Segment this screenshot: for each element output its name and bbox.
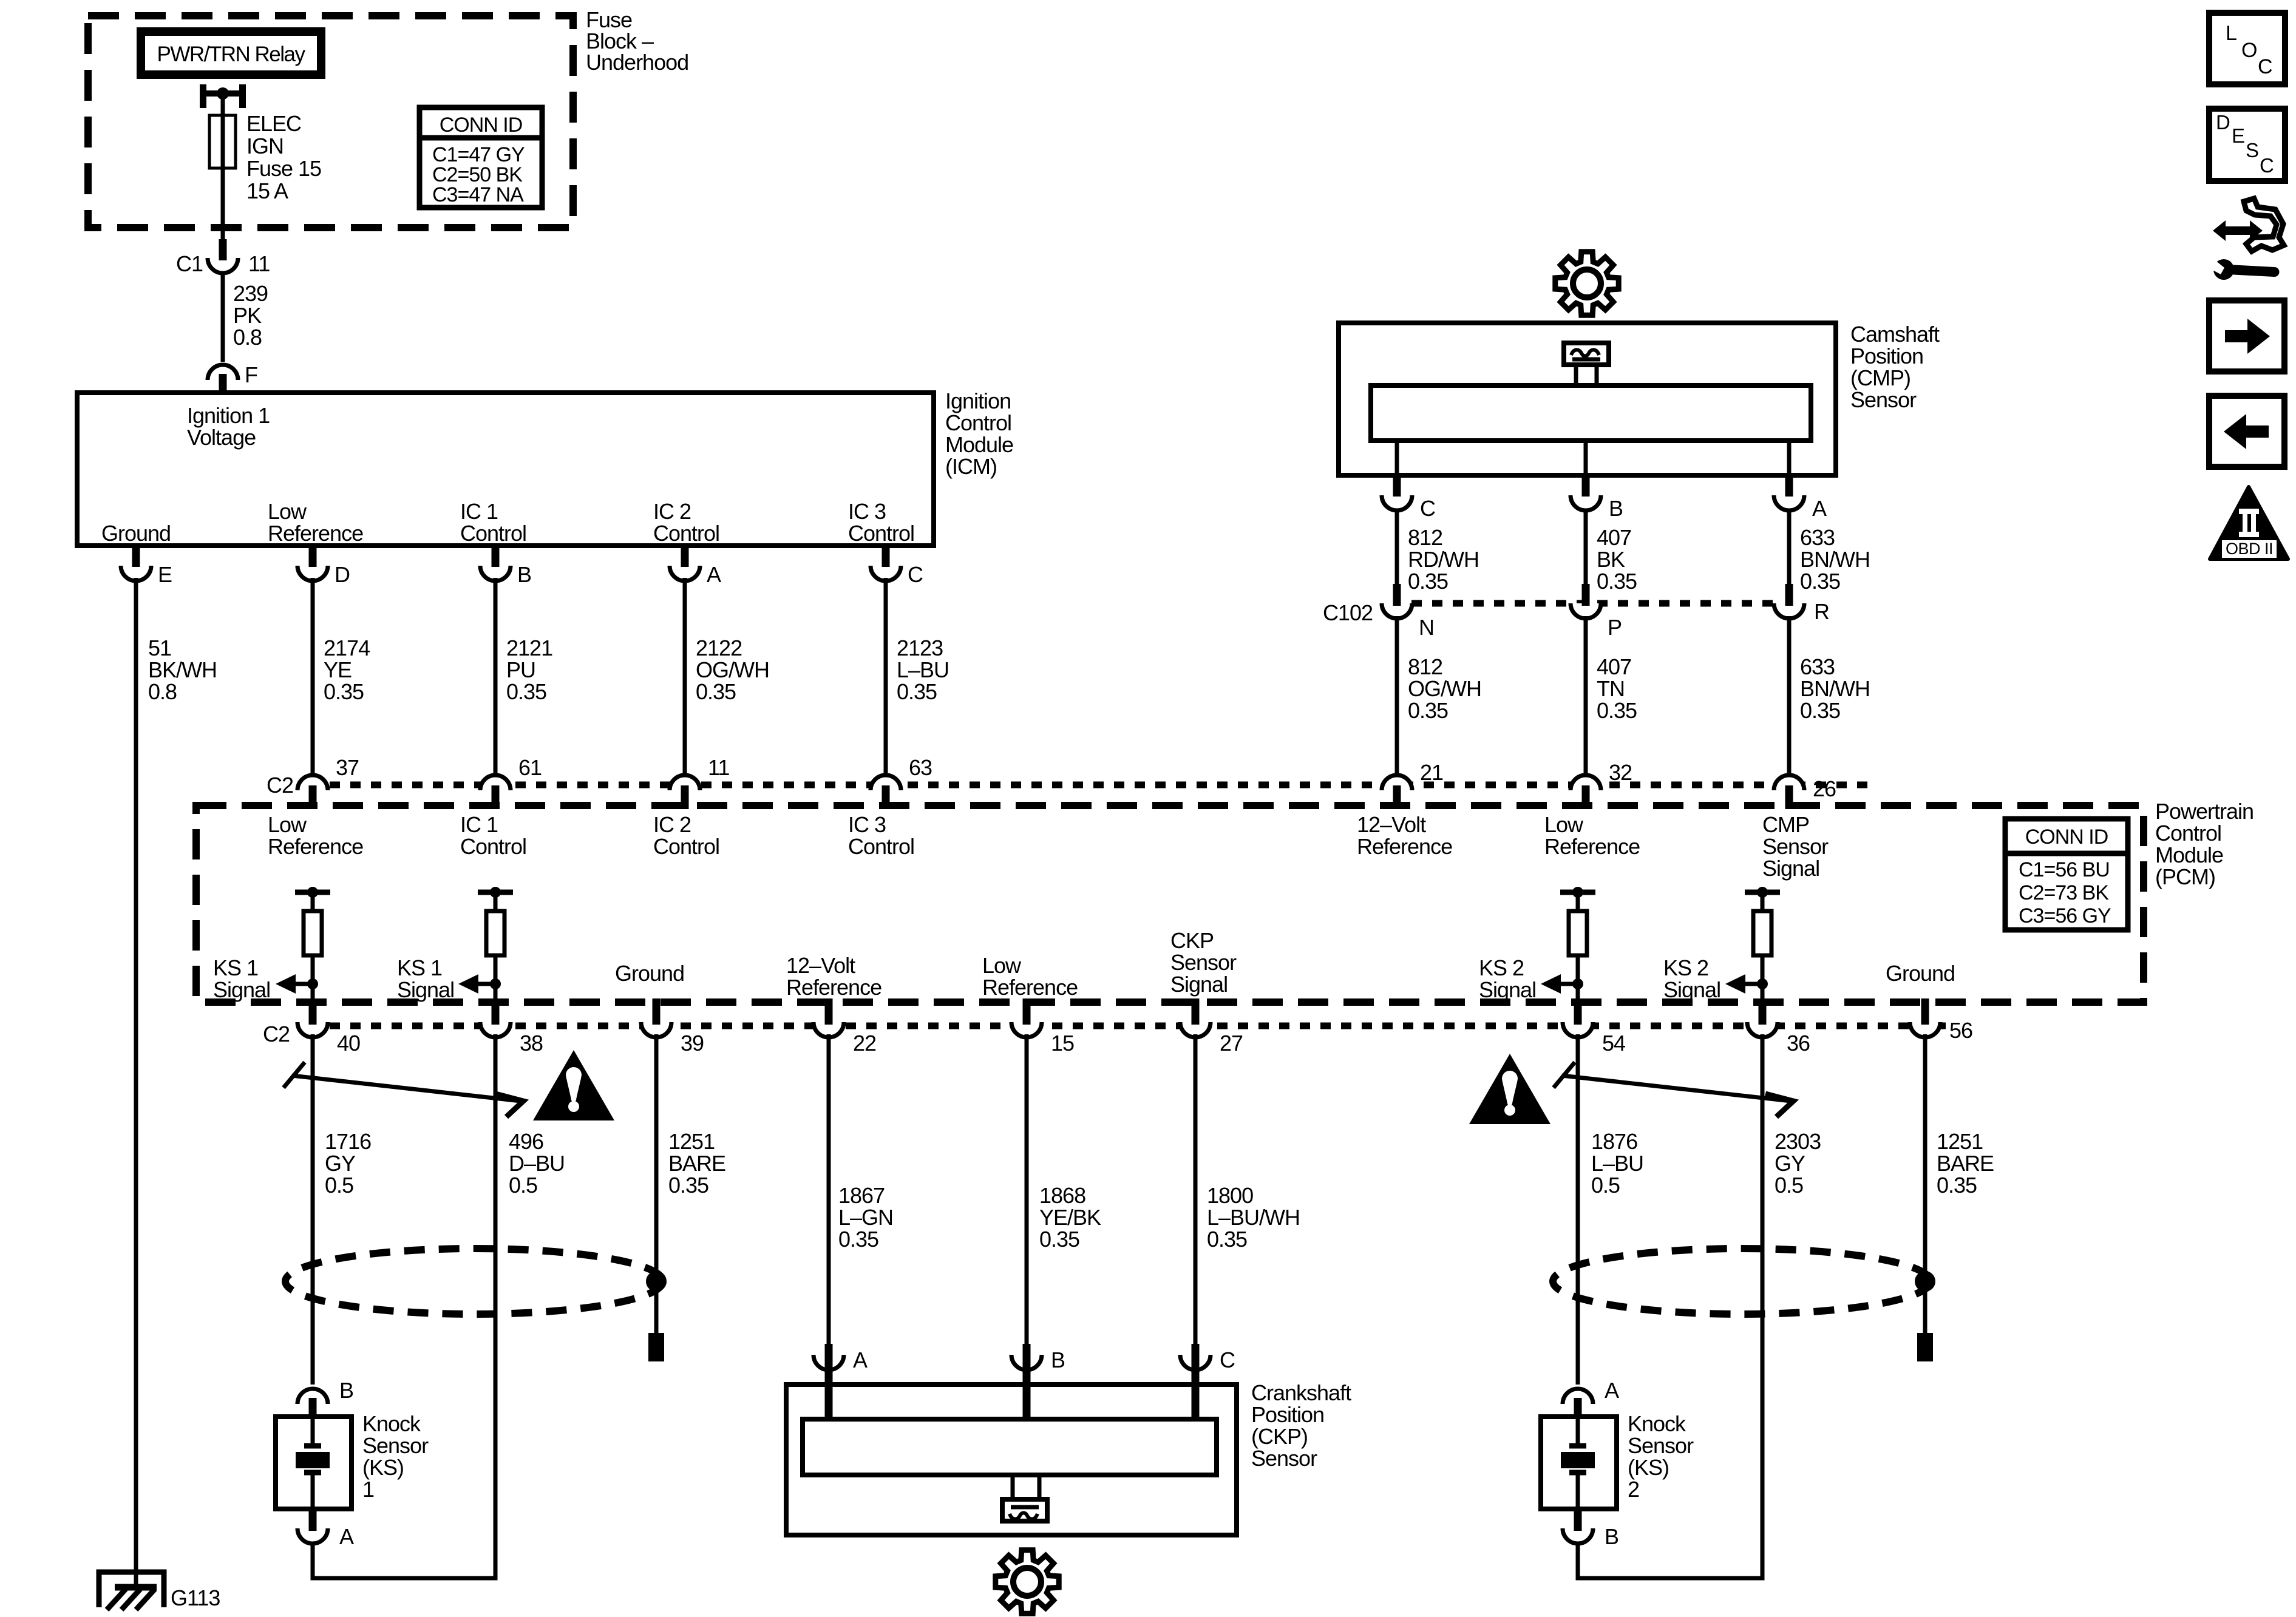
CONN ID header rule (fuse block): [419, 135, 542, 141]
icon DESC box: [2209, 109, 2285, 181]
Knock Sensor 2 box: [1541, 1417, 1617, 1509]
wire 1251 BARE (KS2 shield): [1923, 1034, 1927, 1333]
icon OBD II triangle: [2210, 487, 2288, 559]
svg-text:15: 15: [1051, 1031, 1074, 1056]
PCM C2 top dotted connector line: [330, 782, 1870, 788]
KS1 return jumper: [311, 1576, 498, 1581]
svg-text:A: A: [1812, 496, 1827, 521]
wire 407 TN: [1584, 616, 1588, 773]
fuse ELEC IGN Fuse 15 (15 A): [209, 115, 236, 171]
PCM pin 22: [813, 1022, 844, 1037]
shield ellipse (KS 1 twisted pair): [285, 1249, 663, 1314]
svg-text:B: B: [339, 1378, 353, 1403]
svg-text:D: D: [335, 562, 350, 587]
svg-text:38: 38: [520, 1031, 543, 1056]
svg-text:A: A: [1605, 1378, 1619, 1403]
svg-text:S: S: [2246, 139, 2259, 161]
svg-text:32: 32: [1609, 760, 1632, 785]
CKP pin B: [1011, 1355, 1042, 1370]
wire 812 OG/WH: [1395, 616, 1399, 773]
wire 239 PK 0.8: [221, 271, 225, 362]
CKP sensor gear icon: [996, 1550, 1059, 1613]
wire 633 BN/WH: [1787, 509, 1792, 586]
relay output terminal bracket: [200, 84, 246, 108]
Knock Sensor 1 box: [276, 1417, 352, 1509]
svg-text:Ground: Ground: [101, 521, 171, 546]
CKP pin C: [1180, 1355, 1211, 1370]
svg-text:C1=47 GYC2=50 BKC3=47 NA: C1=47 GYC2=50 BKC3=47 NA: [432, 143, 525, 206]
KS 1 piezo element: [296, 1419, 330, 1509]
PCM internal resistor (KS 1 Signal, pin 40): [276, 887, 330, 1000]
CMP pin C: [1382, 495, 1412, 510]
svg-text:37: 37: [336, 755, 359, 780]
svg-text:B: B: [1051, 1347, 1065, 1372]
icon service/wrench: [2210, 198, 2284, 280]
wire 407 BK: [1584, 509, 1588, 586]
wire KS2 B to return: [1576, 1542, 1580, 1578]
svg-text:11: 11: [248, 251, 270, 276]
CMP internal wire B: [1584, 441, 1588, 475]
ICM pin C (IC 3 Control): [871, 566, 901, 581]
fuse block underhood dashed box: [88, 16, 573, 228]
icon back arrow box: [2209, 396, 2284, 467]
twisted-lead arrow (KS 2): [1554, 1062, 1793, 1117]
svg-text:A: A: [707, 562, 721, 587]
KS 2 piezo element: [1561, 1419, 1595, 1509]
shield drain junction dot (KS 2): [1915, 1271, 1935, 1292]
CMP connector stem left: [1574, 365, 1578, 388]
PCM pin 40: [297, 1022, 328, 1037]
svg-text:C2: C2: [267, 773, 293, 798]
CMP sensor outer box: [1339, 323, 1836, 475]
svg-text:B: B: [1609, 496, 1623, 521]
CMP internal wire C: [1395, 441, 1399, 475]
svg-text:C1=56 BUC2=73 BKC3=56 GY: C1=56 BUC2=73 BKC3=56 GY: [2019, 858, 2111, 927]
KS 1 pin B connector: [297, 1389, 328, 1404]
PCM pin 26: [1774, 775, 1804, 790]
svg-text:C102: C102: [1323, 600, 1373, 625]
CMP pin B: [1571, 495, 1601, 510]
CKP pin A: [813, 1355, 844, 1370]
CMP sensor inner box: [1371, 385, 1811, 441]
PCM pin 21: [1382, 775, 1412, 790]
shield drain junction dot (KS 1): [646, 1271, 667, 1292]
svg-text:Ground: Ground: [615, 961, 684, 986]
twisted-lead arrow (KS 1): [284, 1062, 523, 1117]
svg-text:21: 21: [1420, 760, 1443, 785]
svg-text:PWR/TRN Relay: PWR/TRN Relay: [157, 42, 305, 66]
svg-text:P: P: [1608, 615, 1622, 640]
wire relay to fuse: [221, 93, 225, 118]
PCM pin 36: [1747, 1022, 1778, 1037]
C102 pin P: [1571, 603, 1601, 619]
PCM pin 54: [1563, 1022, 1593, 1037]
wire 496 D-BU: [494, 1034, 498, 1578]
svg-text:36: 36: [1787, 1031, 1810, 1056]
Powertrain Control Module dashed box: [196, 805, 2144, 1002]
CKP sensor connector symbol: [1002, 1499, 1047, 1521]
svg-text:C2: C2: [263, 1022, 290, 1046]
Crankshaft Position sensor outer box: [786, 1385, 1237, 1535]
PCM pin 27: [1180, 1022, 1211, 1037]
KS 2 pin B connector: [1563, 1528, 1593, 1544]
svg-text:C: C: [2258, 55, 2273, 78]
icon LOC box: [2209, 13, 2285, 84]
PCM pin 39: [641, 1022, 671, 1037]
wire 1716 GY: [311, 1034, 315, 1385]
svg-text:E: E: [158, 562, 172, 587]
CMP internal wire A: [1787, 441, 1792, 475]
svg-text:63: 63: [909, 755, 932, 780]
wire 2123 L-BU: [884, 578, 888, 773]
ICM pin E (Ground): [121, 566, 151, 581]
wire 2174 YE: [311, 578, 315, 773]
ground G113: [99, 1572, 164, 1610]
svg-text:B: B: [1605, 1524, 1618, 1549]
Ignition Control Module box: [77, 393, 934, 546]
CMP connector stem right: [1595, 365, 1599, 388]
warning triangle (KS 2): [1469, 1054, 1550, 1124]
svg-text:CONN ID: CONN ID: [2025, 825, 2108, 849]
PCM internal resistor (KS 2 Signal, pin 36): [1725, 887, 1780, 1000]
svg-text:O: O: [2241, 39, 2257, 62]
shield ellipse (KS 2 twisted pair): [1553, 1249, 1931, 1314]
svg-text:N: N: [1419, 615, 1434, 640]
CMP sensor connector symbol: [1564, 343, 1609, 365]
CKP connector stem right: [1038, 1475, 1042, 1500]
PCM internal resistor (KS 1 Signal, pin 38): [458, 887, 513, 1000]
svg-text:40: 40: [337, 1031, 360, 1056]
svg-text:R: R: [1814, 599, 1829, 624]
svg-text:C: C: [1220, 1347, 1235, 1372]
PCM pin 61: [480, 775, 511, 790]
svg-text:Ground: Ground: [1886, 961, 1955, 986]
CMP sensor gear icon: [1555, 252, 1618, 315]
PCM pin 38: [480, 1022, 511, 1037]
svg-text:CONN ID: CONN ID: [440, 114, 523, 137]
warning triangle (KS 1): [533, 1050, 614, 1120]
connector F (ICM): [208, 365, 238, 380]
shield drain terminal (KS 2): [1917, 1333, 1933, 1361]
svg-text:A: A: [853, 1347, 868, 1372]
icon forward arrow box: [2209, 300, 2284, 371]
PWR/TRN relay K box outer: [141, 32, 321, 75]
svg-text:22: 22: [853, 1031, 876, 1056]
svg-text:OBD II: OBD II: [2226, 540, 2273, 558]
wire KS1 A to return: [311, 1542, 315, 1578]
shield drain stub (KS 2): [1923, 1281, 1927, 1333]
PCM pin 15: [1011, 1022, 1042, 1037]
wire 2303 GY: [1761, 1034, 1765, 1578]
KS 2 pin A connector: [1563, 1389, 1593, 1404]
C102 pin R: [1774, 603, 1804, 619]
PCM pin 37: [297, 775, 328, 790]
CONN ID table (PCM): [2005, 819, 2128, 930]
wire 633 BN/WH lower: [1787, 616, 1792, 773]
svg-text:56: 56: [1949, 1018, 1972, 1043]
wire 1867 L-GN: [827, 1034, 831, 1346]
svg-text:F: F: [245, 362, 257, 387]
CONN ID table (fuse block): [419, 107, 542, 208]
svg-text:A: A: [339, 1524, 354, 1549]
svg-text:B: B: [517, 562, 531, 587]
wire 1800 L-BU/WH: [1194, 1034, 1198, 1346]
ICM pin A (IC 2 Control): [670, 566, 700, 581]
wire 2122 OG/WH: [683, 578, 687, 773]
svg-text:D: D: [2216, 111, 2230, 134]
PCM C2 bottom dotted connector line: [330, 1023, 1946, 1029]
PCM pin 32: [1571, 775, 1601, 790]
svg-text:26: 26: [1813, 776, 1836, 801]
wire 1876 L-BU: [1576, 1034, 1580, 1385]
shield drain terminal (KS 1): [648, 1333, 664, 1361]
svg-text:E: E: [2232, 124, 2245, 147]
shield drain stub (KS 1): [654, 1281, 659, 1333]
CKP connector stem left: [1011, 1475, 1015, 1500]
PCM pin 11: [670, 775, 700, 790]
svg-text:27: 27: [1220, 1031, 1243, 1056]
KS2 return jumper: [1576, 1576, 1765, 1581]
wire 812 RD/WH: [1395, 509, 1399, 586]
svg-text:C: C: [908, 562, 923, 587]
C102 dotted connector line: [1411, 600, 1773, 607]
PCM pin 63: [871, 775, 901, 790]
wire fuse to C1: [221, 168, 225, 239]
PCM pin 56: [1910, 1022, 1940, 1037]
svg-text:C: C: [1420, 496, 1435, 521]
KS 1 pin A connector: [297, 1528, 328, 1544]
svg-text:L: L: [2226, 22, 2237, 45]
svg-text:54: 54: [1602, 1031, 1625, 1056]
svg-text:61: 61: [518, 755, 542, 780]
CMP pin A: [1774, 495, 1804, 510]
svg-text:C: C: [2260, 154, 2274, 177]
svg-text:39: 39: [681, 1031, 704, 1056]
Crankshaft Position sensor inner box: [803, 1419, 1217, 1475]
svg-text:C1: C1: [176, 251, 203, 276]
wire 1868 YE/BK: [1025, 1034, 1029, 1346]
connector C1 pin 11: [208, 258, 238, 273]
wire 1251 BARE (KS1 shield): [654, 1034, 659, 1333]
svg-text:11: 11: [708, 755, 729, 780]
CONN ID header rule (PCM): [2005, 851, 2128, 856]
PCM internal resistor (KS 2 Signal, pin 54): [1541, 887, 1595, 1000]
ICM pin D (Low Reference): [297, 566, 328, 581]
svg-text:G113: G113: [171, 1585, 220, 1610]
wire 2121 PU: [494, 578, 498, 773]
C102 pin N: [1382, 603, 1412, 619]
wire 51 BK/WH (ground to G113): [134, 578, 138, 1587]
ICM pin B (IC 1 Control): [480, 566, 511, 581]
